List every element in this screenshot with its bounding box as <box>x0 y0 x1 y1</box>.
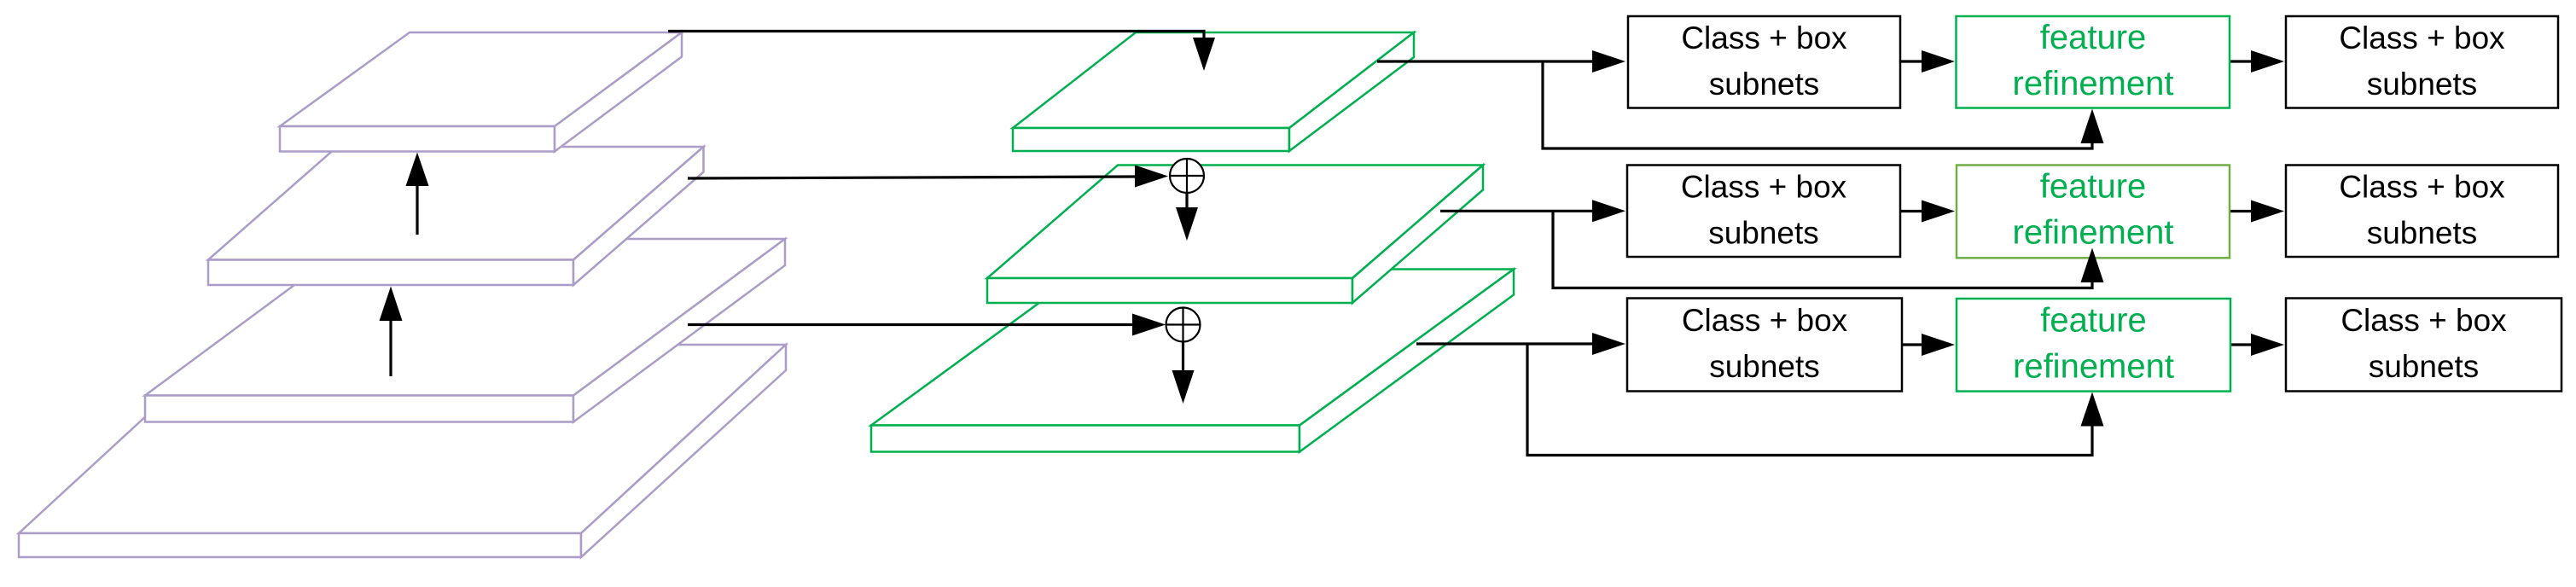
arrow row2 subnets to feature refinement <box>1900 201 1955 223</box>
box row2 Class + box subnets (left) <box>1627 166 1900 258</box>
FPN plate P4 (middle green slab) <box>987 166 1483 304</box>
FPN plate P3 (bottom green slab) <box>871 270 1514 452</box>
svg-text:Class + box: Class + box <box>2340 303 2507 338</box>
svg-text:subnets: subnets <box>1709 67 1820 102</box>
svg-text:refinement: refinement <box>2013 65 2174 102</box>
svg-text:Class + box: Class + box <box>2339 170 2505 205</box>
backbone plate C5 (bottom largest purple slab) <box>19 345 786 557</box>
svg-text:Class + box: Class + box <box>2339 20 2505 55</box>
wire P4 to row2 subnets box <box>1440 200 1625 222</box>
adder node A2 (circled plus) <box>1166 308 1201 342</box>
svg-text:feature: feature <box>2040 302 2147 340</box>
box row3 Class + box subnets (right) <box>2286 299 2561 392</box>
svg-text:feature: feature <box>2040 168 2147 206</box>
box row1 Class + box subnets (right) <box>2286 16 2558 108</box>
box row3 feature refinement <box>1957 299 2230 392</box>
adder node A1 (circled plus) <box>1170 159 1204 193</box>
svg-text:subnets: subnets <box>1708 215 1819 250</box>
wire C4 to adder node A2 <box>688 314 1166 336</box>
box row1 feature refinement <box>1957 16 2230 108</box>
backbone plate C4 (purple slab) <box>145 239 785 422</box>
arrow row1 feature refinement to subnets <box>2230 50 2284 73</box>
svg-text:feature: feature <box>2040 19 2147 56</box>
up arrow between C3 and C2 <box>406 153 429 235</box>
svg-text:refinement: refinement <box>2013 347 2174 385</box>
branch wire row3 into feature refinement bottom <box>1527 344 2104 456</box>
box row2 feature refinement <box>1957 166 2230 259</box>
arrow row3 feature refinement to subnets <box>2230 334 2284 356</box>
box row1 Class + box subnets (left) <box>1628 16 1900 108</box>
down arrow A1 to P4 <box>1176 193 1198 241</box>
svg-text:subnets: subnets <box>2367 67 2478 102</box>
arrow row1 subnets to feature refinement <box>1900 50 1955 73</box>
backbone plate C3 (purple slab) <box>208 147 704 285</box>
box row3 Class + box subnets (left) <box>1627 299 1902 392</box>
svg-text:Class + box: Class + box <box>1681 170 1847 205</box>
wire C2 to P5 with down arrow <box>668 32 1215 72</box>
backbone plate C2 (top purple slab) <box>280 32 682 152</box>
svg-text:subnets: subnets <box>1709 349 1820 384</box>
svg-text:subnets: subnets <box>2367 215 2478 250</box>
svg-text:subnets: subnets <box>2369 349 2480 384</box>
wire P5 to row1 subnets box <box>1377 50 1625 73</box>
box row2 Class + box subnets (right) <box>2286 166 2558 258</box>
branch wire row2 into feature refinement bottom <box>1553 211 2104 288</box>
arrow row3 subnets to feature refinement <box>1902 334 1955 356</box>
wire C3 to adder node A1 <box>688 166 1168 188</box>
up arrow between C4 and C3 <box>380 287 403 377</box>
branch wire row1 into feature refinement bottom <box>1543 61 2104 148</box>
wire P3 to row3 subnets box <box>1416 333 1625 355</box>
down arrow A2 to P3 <box>1172 342 1195 404</box>
FPN plate P5 (top green slab) <box>1013 32 1414 151</box>
arrow row2 feature refinement to subnets <box>2230 201 2284 223</box>
svg-text:Class + box: Class + box <box>1682 303 1848 338</box>
svg-text:refinement: refinement <box>2013 213 2174 251</box>
svg-text:Class + box: Class + box <box>1681 20 1847 55</box>
